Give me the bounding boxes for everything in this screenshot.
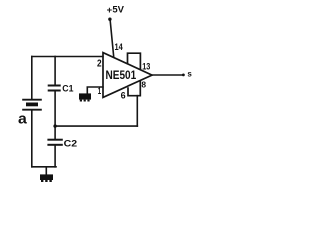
node junction dot <box>53 124 56 127</box>
jumper loop pin 13 <box>128 53 141 69</box>
ground (bottom) <box>40 174 53 182</box>
svg-text:8: 8 <box>141 79 146 89</box>
svg-text:14: 14 <box>115 42 123 52</box>
wire vertical up to pin 6 loop <box>136 96 138 126</box>
jumper loop pin 6 to pin 8 <box>128 80 140 95</box>
svg-text:a: a <box>18 110 27 127</box>
wire C1 to junction <box>54 92 56 127</box>
crystal Q <box>22 100 42 110</box>
wire top horizontal (node to pin 2) <box>32 56 103 58</box>
wire ground stub bottom <box>45 167 47 175</box>
svg-text:6: 6 <box>121 91 126 101</box>
op-amp U1 NE501 triangle <box>103 53 152 98</box>
node +5V terminal dot <box>108 18 111 21</box>
ground (pin 1) <box>79 93 91 101</box>
svg-text:5V: 5V <box>112 4 124 14</box>
svg-text:2: 2 <box>97 58 102 69</box>
capacitor C2 <box>47 140 62 145</box>
wire C2 to bottom wire <box>54 146 56 167</box>
capacitor C1 <box>48 86 61 91</box>
svg-text:1: 1 <box>98 86 101 96</box>
wire pin 1 to ground <box>87 87 103 93</box>
wire junction to C2 <box>54 126 56 139</box>
wire crystal to bottom <box>31 110 33 167</box>
svg-text:NE501: NE501 <box>106 69 137 82</box>
wire left vertical to crystal <box>31 57 33 100</box>
wire top to C1 <box>54 57 56 85</box>
wire bottom horizontal <box>32 166 56 168</box>
svg-text:C1: C1 <box>62 84 73 94</box>
wire +5V to pin 14 <box>110 20 114 57</box>
node output dot <box>182 74 185 77</box>
wire junction horizontal to pin6 loop <box>55 125 137 127</box>
wire output <box>152 74 182 76</box>
svg-text:s: s <box>187 70 192 79</box>
svg-text:13: 13 <box>142 61 150 71</box>
svg-text:C2: C2 <box>64 138 78 148</box>
